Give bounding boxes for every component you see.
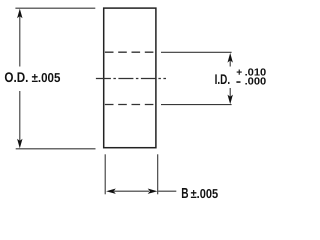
svg-text:B: B xyxy=(181,186,188,202)
svg-text:I.D.: I.D. xyxy=(215,71,231,87)
svg-text:±.005: ±.005 xyxy=(191,186,219,201)
svg-text:+: + xyxy=(236,68,242,79)
svg-text:.000: .000 xyxy=(245,77,267,88)
svg-text:±.005: ±.005 xyxy=(32,70,61,85)
svg-text:O.D.: O.D. xyxy=(4,69,28,85)
